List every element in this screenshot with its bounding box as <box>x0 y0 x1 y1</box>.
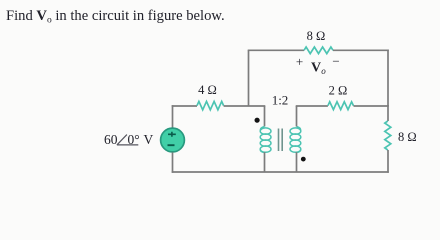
wire: top main left segment <box>172 105 197 107</box>
svg-text:8 Ω: 8 Ω <box>398 130 417 144</box>
svg-text:2 Ω: 2 Ω <box>329 84 348 98</box>
label 60 angle 0deg V (source value) <box>104 132 154 147</box>
wire: left edge bottom (source to bottom rail) <box>172 152 174 173</box>
wire: top-left loop left vertical (junction to 8ohm feedback loop) <box>248 50 250 106</box>
svg-text:4 Ω: 4 Ω <box>198 83 217 97</box>
resistor 8ohm (right vertical) <box>385 121 391 150</box>
source: 60 angle 0 V ac voltage source <box>161 128 185 152</box>
svg-text:1:2: 1:2 <box>272 93 289 108</box>
resistor 2ohm <box>328 102 354 110</box>
svg-text:Find Vo in the circuit in figu: Find Vo in the circuit in figure below. <box>6 8 225 26</box>
wire: left edge top (corner to source) <box>172 105 174 129</box>
wire: top main middle segment to transformer primary <box>224 105 266 107</box>
label 2 ohm <box>329 84 348 98</box>
label 4 ohm <box>198 83 217 97</box>
label 8 ohm (right) <box>398 130 417 144</box>
label + Vo - (output voltage across feedback) <box>296 54 340 76</box>
wire: transformer secondary bottom stub <box>296 152 298 172</box>
inductor: transformer primary coil <box>260 127 271 153</box>
wire: transformer primary top stub <box>264 106 266 127</box>
svg-text:60: 60 <box>104 132 118 147</box>
svg-text:−: − <box>332 54 339 69</box>
svg-text:+: + <box>296 54 303 69</box>
wire: 8ohm feedback right vertical <box>387 50 389 107</box>
wire: bottom rail <box>172 171 389 173</box>
svg-text:V: V <box>311 61 321 76</box>
svg-text:V: V <box>144 132 154 147</box>
inductor: transformer secondary coil <box>290 127 301 153</box>
label 1:2 (turns ratio) <box>272 93 289 108</box>
wire: right edge upper stub <box>387 105 389 121</box>
label 8 ohm (top) <box>307 29 326 43</box>
resistor 4ohm <box>197 101 224 109</box>
wire: 2ohm to right edge <box>354 105 389 107</box>
transformer core <box>279 129 283 152</box>
node dot: secondary polarity dot <box>301 157 306 162</box>
wire: 8ohm feedback top-right horizontal <box>333 49 389 51</box>
wire: secondary top to 2ohm <box>296 105 328 107</box>
node dot: primary polarity dot <box>255 118 260 123</box>
svg-text:0°: 0° <box>128 132 140 147</box>
title text <box>6 8 225 26</box>
svg-text:8 Ω: 8 Ω <box>307 29 326 43</box>
wire: transformer secondary top stub <box>296 106 298 127</box>
wire: transformer primary bottom stub <box>264 152 266 172</box>
svg-text:o: o <box>321 66 326 76</box>
wire: right edge lower stub <box>387 150 389 173</box>
wire: 8ohm feedback top-left horizontal <box>248 49 304 51</box>
resistor 8ohm (top feedback) <box>304 47 333 54</box>
